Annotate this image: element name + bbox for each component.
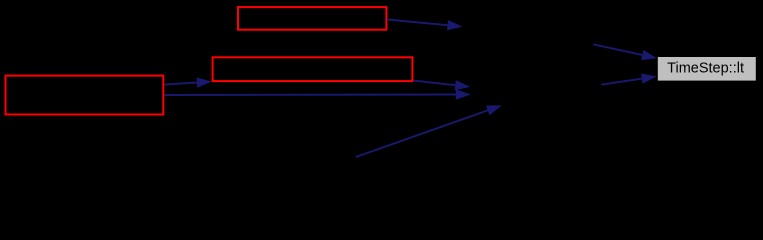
edge: left box -> central node (long horizontal) xyxy=(164,89,470,99)
node: top red box (caller) xyxy=(238,7,386,30)
edge: central node -> TimeStep::lt (lower) xyxy=(601,74,657,85)
svg-text:TimeStep::lt: TimeStep::lt xyxy=(667,61,744,77)
node: left red box (caller, 2-line label) xyxy=(6,76,164,115)
edge: top box -> central node xyxy=(387,20,462,31)
node: TimeStep::lt (grey) xyxy=(658,57,756,81)
edge: left box -> middle box xyxy=(164,77,211,87)
edge: central node -> TimeStep::lt (upper) xyxy=(593,44,657,60)
node: middle red box (caller) xyxy=(213,57,413,81)
edge: middle box -> central node xyxy=(413,80,470,90)
edge: bottom node -> central node (diagonal) xyxy=(356,105,502,157)
